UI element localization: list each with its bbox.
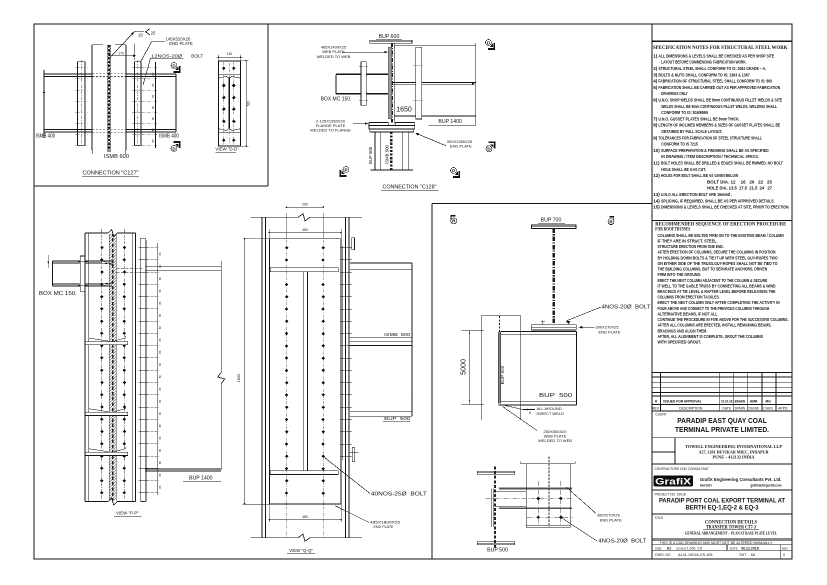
svg-text:MG: MG <box>766 399 772 403</box>
svg-text:80: 80 <box>158 338 162 341</box>
svg-text:80: 80 <box>158 252 162 255</box>
svg-text:ISMB 500: ISMB 500 <box>384 145 389 164</box>
svg-text:GENERAL ARRANGEMENT – PLAN AT: GENERAL ARRANGEMENT – PLAN AT BASE PLATE… <box>685 532 778 536</box>
svg-text:10): 10) <box>653 148 660 153</box>
svg-text:PUNE – 412132 INDIA: PUNE – 412132 INDIA <box>713 455 755 459</box>
svg-text:170: 170 <box>118 51 124 55</box>
svg-text:ISMB 400: ISMB 400 <box>159 134 179 140</box>
svg-text:IF THEY ARE IN STRUCT. STEEL.: IF THEY ARE IN STRUCT. STEEL. <box>658 238 718 243</box>
svg-text:FABRICATION SHALL BE CARRIED O: FABRICATION SHALL BE CARRIED OUT AS PER … <box>658 85 780 91</box>
svg-text:BOLTS & NUTS SHALL CONFORM TO: BOLTS & NUTS SHALL CONFORM TO IS: 1363 &… <box>658 72 750 78</box>
svg-text:80: 80 <box>158 424 162 427</box>
svg-text:80: 80 <box>151 117 155 120</box>
svg-text:AFTER ERECTION OF COLUMNS, SEC: AFTER ERECTION OF COLUMNS, SECURE THE CO… <box>658 250 776 255</box>
svg-text:DATE: DATE <box>722 406 732 410</box>
svg-text:PROJECT NO. 19018: PROJECT NO. 19018 <box>655 492 686 496</box>
svg-text:BUP 500: BUP 500 <box>500 365 505 384</box>
svg-text:11): 11) <box>653 161 660 166</box>
svg-text:DSGND: DSGND <box>748 406 759 410</box>
svg-text:REV: REV <box>782 546 788 550</box>
svg-text:D: D <box>172 63 176 68</box>
svg-text:New Delhi: New Delhi <box>700 483 712 487</box>
svg-text:80: 80 <box>158 399 162 402</box>
svg-text:BOLT: BOLT <box>191 53 203 59</box>
svg-text:520: 520 <box>247 101 251 107</box>
svg-text:AMR: AMR <box>750 399 758 403</box>
svg-text:WITH SPECIFIED GROUT.: WITH SPECIFIED GROUT. <box>658 340 701 345</box>
svg-text:BERTH EQ-1,EQ-2 & EQ-3: BERTH EQ-1,EQ-2 & EQ-3 <box>686 504 760 511</box>
svg-text:06.12.2018: 06.12.2018 <box>741 546 759 550</box>
svg-text:WELDED TO WEB: WELDED TO WEB <box>538 438 572 443</box>
svg-text:25: 25 <box>151 31 156 36</box>
svg-text:TOLERANCES FOR FABRICATION OF: TOLERANCES FOR FABRICATION OF STEEL STRU… <box>658 135 762 141</box>
svg-text:AFTER ALL COLUMNS ARE ERECTED,: AFTER ALL COLUMNS ARE ERECTED, INSTALL R… <box>658 323 772 328</box>
svg-text:BUP 600: BUP 600 <box>379 34 400 40</box>
svg-text:WELDED TO FLANGE: WELDED TO FLANGE <box>310 128 351 133</box>
svg-text:IN DRAWING / ITEM DESCRIPTION: IN DRAWING / ITEM DESCRIPTION / TECHNICA… <box>661 154 759 160</box>
svg-text:12NOS-20Ø: 12NOS-20Ø <box>151 53 182 59</box>
svg-text:VIEW "P-P": VIEW "P-P" <box>116 511 139 516</box>
svg-text:1): 1) <box>653 53 658 58</box>
svg-text:DESCRIPTION: DESCRIPTION <box>679 406 703 410</box>
svg-text:ISSUED FOR APPROVAL: ISSUED FOR APPROVAL <box>663 398 702 403</box>
svg-text:AFTER, ALL ALIGNMENT IS COMPLE: AFTER, ALL ALIGNMENT IS COMPLETE, GROUT … <box>658 334 764 339</box>
svg-text:15): 15) <box>653 205 660 210</box>
svg-text:80: 80 <box>158 313 162 316</box>
svg-text:SPECIFICATION NOTES FOR STRUCT: SPECIFICATION NOTES FOR STRUCTURAL STEEL… <box>653 45 788 51</box>
svg-text:HOLE DIA. 13.5 17.5 21.5 24: HOLE DIA. 13.5 17.5 21.5 24 27 <box>707 186 772 192</box>
svg-text:80: 80 <box>151 139 155 142</box>
svg-text:CONFORM TO IS 7215: CONFORM TO IS 7215 <box>661 142 698 148</box>
svg-text:U.N.O. SHOP WELDS SHALL BE 8mm: U.N.O. SHOP WELDS SHALL BE 8mm CONTINUOU… <box>658 98 782 104</box>
svg-text:250: 250 <box>302 203 308 207</box>
svg-text:LENGTH OF INCLINED MEMBERS & S: LENGTH OF INCLINED MEMBERS & SIZES OF GU… <box>658 123 780 129</box>
svg-text:5): 5) <box>653 85 658 90</box>
svg-text:BRACINGS AND ALIGN THEM.: BRACINGS AND ALIGN THEM. <box>658 328 708 333</box>
svg-text:SHT: SHT <box>739 553 746 557</box>
svg-text:WELDS SHALL BE 6mm CONTINUOUS: WELDS SHALL BE 6mm CONTINUOUS FILLET WEL… <box>661 104 777 110</box>
svg-text:CLIENT: CLIENT <box>655 413 666 417</box>
svg-text:VIEW "Q-Q": VIEW "Q-Q" <box>289 548 313 553</box>
svg-text:A1: A1 <box>667 546 672 550</box>
svg-text:7): 7) <box>653 116 658 121</box>
svg-text:COLUMNS FROM ERECTION TACKLES.: COLUMNS FROM ERECTION TACKLES. <box>658 295 720 300</box>
svg-text:HOLE SHALL BE GAS CUT.: HOLE SHALL BE GAS CUT. <box>661 167 706 173</box>
svg-text:CONNECTION "C127": CONNECTION "C127" <box>83 170 139 176</box>
svg-text:CONTINUE THE PROCEDURE IN FIVE: CONTINUE THE PROCEDURE IN FIVE ABOVE FOR… <box>658 317 789 322</box>
svg-text:STRUCTURAL STEEL SHALL CONFORM: STRUCTURAL STEEL SHALL CONFORM TO IS: 20… <box>658 66 766 72</box>
svg-text:80: 80 <box>151 72 155 75</box>
svg-text:80: 80 <box>158 362 162 365</box>
svg-text:REV: REV <box>652 406 660 410</box>
svg-text:0: 0 <box>655 398 658 403</box>
svg-text:80: 80 <box>158 277 162 280</box>
svg-text:ERECT THE NEXT COLUMN ONLY AFT: ERECT THE NEXT COLUMN ONLY AFTER COMPLET… <box>658 300 780 305</box>
svg-text:DRAWINGS ONLY: DRAWINGS ONLY <box>661 91 688 97</box>
svg-text:FOUR ABOVE AND CONNECT TO THE: FOUR ABOVE AND CONNECT TO THE PREVIOUS C… <box>658 306 770 311</box>
svg-text:BRACINGS AT TIE LEVEL & RAFTER: BRACINGS AT TIE LEVEL & RAFTER LEVEL BEF… <box>658 289 776 294</box>
svg-text:SPLICING, IF REQUIRED, SHALL B: SPLICING, IF REQUIRED, SHALL BE AS PER A… <box>661 198 775 204</box>
svg-text:COLUMNS SHALL BE BOLTED FIRM O: COLUMNS SHALL BE BOLTED FIRM ON TO THE E… <box>658 233 784 238</box>
svg-text:1:100, 1:5: 1:100, 1:5 <box>687 546 702 550</box>
svg-text:U.N.O. GUSSET PLATES SHALL BE: U.N.O. GUSSET PLATES SHALL BE 8mm THICK. <box>658 116 740 122</box>
svg-text:A27, 1201 DEVIKAR MIEC, INDAPU: A27, 1201 DEVIKAR MIEC, INDAPUR <box>699 451 769 455</box>
svg-text:4NOS-20Ø BOLT: 4NOS-20Ø BOLT <box>602 304 651 310</box>
svg-text:P: P <box>344 167 347 172</box>
svg-text:ISMB 600: ISMB 600 <box>104 154 129 160</box>
svg-text:CONFORM TO IS: 816/9595: CONFORM TO IS: 816/9595 <box>661 110 708 116</box>
svg-text:BUP 500: BUP 500 <box>368 146 373 164</box>
svg-text:THIS IS A CAD DRAWING AND MUST: THIS IS A CAD DRAWING AND MUST NOT BE AL… <box>660 541 774 545</box>
svg-text:U.N.O ALL ERECTION BOLT ARE 16: U.N.O ALL ERECTION BOLT ARE 16mmØ . <box>661 192 733 198</box>
svg-text:80: 80 <box>151 128 155 131</box>
svg-text:4NOS-20Ø BOLT: 4NOS-20Ø BOLT <box>598 539 646 545</box>
svg-text:3): 3) <box>653 72 658 77</box>
svg-text:STRUCTURE ERECTION FROM ONE EN: STRUCTURE ERECTION FROM ONE END. <box>658 244 724 249</box>
svg-text:80: 80 <box>158 387 162 390</box>
svg-text:grafixdel@gecltd.com: grafixdel@gecltd.com <box>751 483 782 487</box>
svg-text:40NOS-25Ø BOLT: 40NOS-25Ø BOLT <box>371 492 427 498</box>
svg-text:80: 80 <box>158 436 162 439</box>
svg-text:P: P <box>452 168 455 173</box>
svg-text:BUP 1400: BUP 1400 <box>438 119 462 125</box>
svg-text:ERECT THE NEXT COLUMN ADJACENT: ERECT THE NEXT COLUMN ADJACENT TO THE CO… <box>658 278 768 283</box>
svg-text:80: 80 <box>158 485 162 488</box>
svg-text:9): 9) <box>653 135 658 140</box>
svg-text:BSHAN: BSHAN <box>735 399 746 403</box>
svg-text:TERMINAL PRIVATE LIMITED.: TERMINAL PRIVATE LIMITED. <box>675 425 769 434</box>
svg-text:80: 80 <box>158 326 162 329</box>
svg-text:BY HOLDING DOWN BOLTS & TIE IT: BY HOLDING DOWN BOLTS & TIE IT UP WITH S… <box>658 255 778 260</box>
svg-text:END PLATE: END PLATE <box>599 329 621 334</box>
svg-text:END PLATE: END PLATE <box>374 524 394 529</box>
svg-text:BOX MC 150.: BOX MC 150. <box>39 291 77 297</box>
svg-text:80: 80 <box>158 412 162 415</box>
svg-text:BOX MC 150.: BOX MC 150. <box>321 97 352 103</box>
svg-text:10.10.18: 10.10.18 <box>721 399 733 403</box>
svg-text:8: 8 <box>529 411 531 415</box>
svg-text:CHKD: CHKD <box>763 406 773 410</box>
svg-text:HOLES FOR BOLT SHALL BE AS GIV: HOLES FOR BOLT SHALL BE AS GIVEN BELOW <box>661 173 738 179</box>
svg-text:80: 80 <box>158 448 162 451</box>
svg-text:BUP 500: BUP 500 <box>487 548 508 554</box>
svg-text:VIEW "D-D": VIEW "D-D" <box>215 146 239 151</box>
svg-text:APPD: APPD <box>778 406 788 410</box>
svg-text:66: 66 <box>751 553 755 557</box>
svg-text:RECOMMENDED SEQUENCE OF ERECTI: RECOMMENDED SEQUENCE OF ERECTION PROCEDU… <box>655 222 787 227</box>
svg-text:END PLATE: END PLATE <box>600 517 622 522</box>
svg-text:DRWN: DRWN <box>735 406 746 410</box>
svg-text:80: 80 <box>158 473 162 476</box>
svg-text:0: 0 <box>783 553 785 557</box>
svg-text:483: 483 <box>302 228 308 232</box>
svg-text:SURFACE PREPARATION & FINISHIN: SURFACE PREPARATION & FINISHING SHALL BE… <box>661 148 769 154</box>
svg-text:GrafiX: GrafiX <box>655 476 692 487</box>
svg-text:ALL DIMENSIONS & LEVELS SHALL: ALL DIMENSIONS & LEVELS SHALL BE CHECKED… <box>658 53 774 59</box>
svg-text:DATE: DATE <box>730 546 738 550</box>
svg-text:14): 14) <box>653 198 660 203</box>
svg-text:CONTRACTORS CHD CONSULTANT: CONTRACTORS CHD CONSULTANT <box>655 467 709 471</box>
svg-text:DIMENSIONS & LEVELS SHALL BE C: DIMENSIONS & LEVELS SHALL BE CHECKED AT … <box>661 205 790 211</box>
svg-text:1650: 1650 <box>396 106 412 113</box>
svg-text:BOLT HOLES SHALL BE DRILLED &: BOLT HOLES SHALL BE DRILLED & EDGES SHAL… <box>661 161 783 167</box>
svg-text:80: 80 <box>151 83 155 86</box>
svg-text:80: 80 <box>158 350 162 353</box>
svg-text:80: 80 <box>158 301 162 304</box>
svg-text:PARADIP PORT COAL EXPORT TERMI: PARADIP PORT COAL EXPORT TERMINAL AT <box>659 497 785 504</box>
svg-text:DWG. NO: DWG. NO <box>655 553 671 557</box>
svg-text:THE BUILDING COLUMNS, BUT TO S: THE BUILDING COLUMNS, BUT TO SEPARATE AN… <box>658 267 768 272</box>
svg-text:FIRM INTO THE GROUND.: FIRM INTO THE GROUND. <box>658 272 701 277</box>
svg-text:ISMB 400: ISMB 400 <box>36 134 56 140</box>
svg-text:R: R <box>452 219 456 224</box>
svg-text:SCALE: SCALE <box>676 546 686 550</box>
svg-text:140: 140 <box>227 52 233 56</box>
svg-text:FABRICATION OF STRUCTURAL STEE: FABRICATION OF STRUCTURAL STEEL SHALL CO… <box>658 79 772 85</box>
svg-text:80: 80 <box>151 94 155 97</box>
svg-text:ISMB 500: ISMB 500 <box>384 332 411 337</box>
svg-text:13): 13) <box>653 192 660 197</box>
svg-text:TOWELL ENGINEERING INTERNATION: TOWELL ENGINEERING INTERNATIONAL LLP <box>685 444 782 449</box>
svg-text:BUP 1400: BUP 1400 <box>189 475 213 481</box>
svg-text:1800: 1800 <box>236 373 241 382</box>
svg-text:D: D <box>487 147 491 152</box>
svg-text:12): 12) <box>653 173 660 178</box>
svg-text:BOLT DIA. 12 16 20 22: BOLT DIA. 12 16 20 22 25 <box>707 179 772 185</box>
svg-text:ALTERNATIVE BEAMS, IF NOT ALL: ALTERNATIVE BEAMS, IF NOT ALL <box>658 311 718 316</box>
svg-text:D: D <box>487 40 491 45</box>
svg-text:ON EITHER SIDE OF THE TRUSS.GU: ON EITHER SIDE OF THE TRUSS.GUY-ROPES SH… <box>658 261 778 266</box>
svg-text:GrafiX Engineering Consultants: GrafiX Engineering Consultants Pvt. Ltd. <box>700 477 782 483</box>
svg-text:OBTAINED BY FULL SCALE LAYOUT.: OBTAINED BY FULL SCALE LAYOUT. <box>661 129 722 135</box>
svg-text:80: 80 <box>158 461 162 464</box>
svg-text:R: R <box>609 219 613 224</box>
svg-text:LAYOUT BEFORE COMMENCING FABRI: LAYOUT BEFORE COMMENCING FABRICATION WOR… <box>661 60 747 66</box>
svg-text:A141-19018-CS-105: A141-19018-CS-105 <box>678 552 713 557</box>
svg-text:BUP 500: BUP 500 <box>384 416 411 421</box>
svg-text:D: D <box>172 146 176 151</box>
svg-text:2): 2) <box>653 66 658 71</box>
svg-text:483: 483 <box>302 515 308 519</box>
svg-text:8): 8) <box>653 123 658 128</box>
svg-text:80: 80 <box>158 375 162 378</box>
svg-text:CONNECTION DETAILS: CONNECTION DETAILS <box>705 519 757 525</box>
svg-text:WELDED TO WEB: WELDED TO WEB <box>317 54 351 59</box>
svg-text:6): 6) <box>653 98 658 103</box>
svg-text:BUP 500: BUP 500 <box>539 393 572 399</box>
svg-text:10: 10 <box>138 32 143 37</box>
svg-text:BUP 700: BUP 700 <box>541 218 562 224</box>
svg-text:END PLATE: END PLATE <box>169 41 193 46</box>
svg-text:4): 4) <box>653 79 658 84</box>
svg-text:5000: 5000 <box>459 359 468 375</box>
svg-text:SIZE: SIZE <box>655 546 662 550</box>
svg-text:TITLE: TITLE <box>655 516 664 520</box>
svg-text:END PLATE: END PLATE <box>450 144 472 149</box>
svg-text:IT WELL TO THE GABLE TRUSS BY: IT WELL TO THE GABLE TRUSS BY CONNECTING… <box>658 283 777 288</box>
svg-text:DIRECT WELD: DIRECT WELD <box>537 411 565 416</box>
svg-text:80: 80 <box>151 105 155 108</box>
svg-text:80: 80 <box>158 289 162 292</box>
